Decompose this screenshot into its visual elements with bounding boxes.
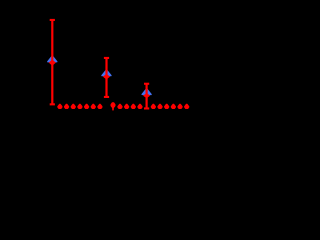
errorbar point 2 bottom cap	[104, 96, 109, 98]
baseline marker 16	[157, 104, 162, 109]
baseline marker 11	[124, 104, 129, 109]
baseline marker 18	[171, 104, 176, 109]
errorbar point 1 top cap	[50, 19, 55, 21]
baseline marker 9 elevated with stem	[111, 102, 116, 108]
baseline marker 20	[184, 104, 189, 109]
errorbar point 1 red marker	[49, 60, 56, 66]
baseline marker 13	[137, 104, 142, 109]
errorbar point 1 blue marker	[48, 56, 57, 62]
errorbar point 3 blue marker	[142, 89, 151, 95]
errorbar point 2 blue marker	[102, 70, 111, 76]
baseline marker 5	[84, 104, 89, 109]
baseline marker 19	[177, 104, 182, 109]
errorbar point 1 bottom cap	[50, 103, 55, 105]
baseline marker 2	[64, 104, 69, 109]
baseline marker 1	[57, 104, 62, 109]
errorbar point 3 red marker	[143, 93, 150, 98]
baseline marker 9 stem	[112, 107, 114, 110]
errorbar point 3 top cap	[144, 83, 149, 85]
baseline marker 17	[164, 104, 169, 109]
errorbar point 3 bottom cap	[144, 107, 149, 109]
baseline marker 4	[77, 104, 82, 109]
baseline marker 10	[117, 104, 122, 109]
errorbar point 2 top cap	[104, 57, 109, 59]
errorbar point 2 vertical line	[105, 58, 107, 97]
baseline marker 6	[91, 104, 96, 109]
errorbar point 3 vertical line	[146, 84, 148, 109]
baseline marker 12	[131, 104, 136, 109]
baseline marker 7	[97, 104, 102, 109]
baseline marker 15	[151, 104, 156, 109]
baseline marker 3	[71, 104, 76, 109]
errorbar point 2 red marker	[103, 74, 110, 80]
errorbar point 1 vertical line	[51, 20, 53, 104]
